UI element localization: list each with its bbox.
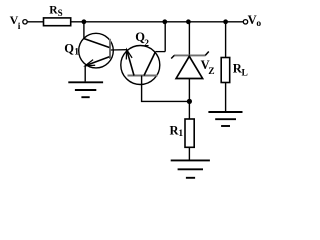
wire rail to zener cathode (188, 22, 190, 56)
wire Q2 base to zener-R1 node (142, 76, 190, 102)
resistor RL (221, 58, 230, 83)
ground under Q1 (68, 82, 103, 97)
label Vo (248, 13, 262, 29)
zener diode VZ (171, 52, 209, 79)
svg-text:o: o (256, 19, 261, 29)
node junction after Rs (82, 19, 87, 24)
ground under RL (208, 112, 242, 126)
wire node to R1 (188, 101, 190, 119)
svg-text:Q: Q (64, 41, 74, 55)
label Q2 (135, 30, 149, 49)
wire Vi to Rs (27, 21, 43, 23)
label RL (233, 62, 248, 79)
label Q1 (64, 41, 79, 57)
wire RL to ground (225, 83, 227, 112)
terminal Vi (23, 20, 27, 24)
ground under R1 (171, 160, 210, 177)
wire R1 to ground (188, 147, 190, 159)
wire Rs to Vo (top rail) (71, 21, 244, 23)
wire riser to rail (164, 22, 166, 52)
transistor Q2 (121, 46, 160, 85)
resistor R1 (185, 119, 194, 147)
wire Q1 emitter to ground (84, 66, 86, 82)
wire zener anode to node (188, 79, 190, 102)
node junction RL branch (223, 19, 228, 24)
node junction Q2 collector riser (162, 19, 167, 24)
svg-text:i: i (18, 22, 21, 32)
transistor Q1 (79, 33, 114, 68)
node junction zener branch (186, 19, 191, 24)
label Rs (49, 5, 62, 19)
svg-text:S: S (58, 8, 63, 18)
wire rail to RL (225, 22, 227, 58)
wire Q1 base to Q2 emitter (111, 49, 127, 51)
wire rail to Q1 collector (83, 22, 85, 39)
terminal Vo (243, 20, 247, 24)
label VZ (201, 58, 215, 77)
svg-text:V: V (248, 13, 257, 27)
wire Q2 collector to riser (156, 51, 166, 53)
label Vi (10, 13, 21, 32)
svg-text:L: L (242, 68, 248, 78)
svg-text:Z: Z (208, 67, 214, 77)
svg-text:1: 1 (178, 129, 183, 139)
label R1 (170, 124, 184, 139)
resistor Rs (44, 18, 71, 26)
node junction zener R1 Q2-base (187, 99, 192, 104)
